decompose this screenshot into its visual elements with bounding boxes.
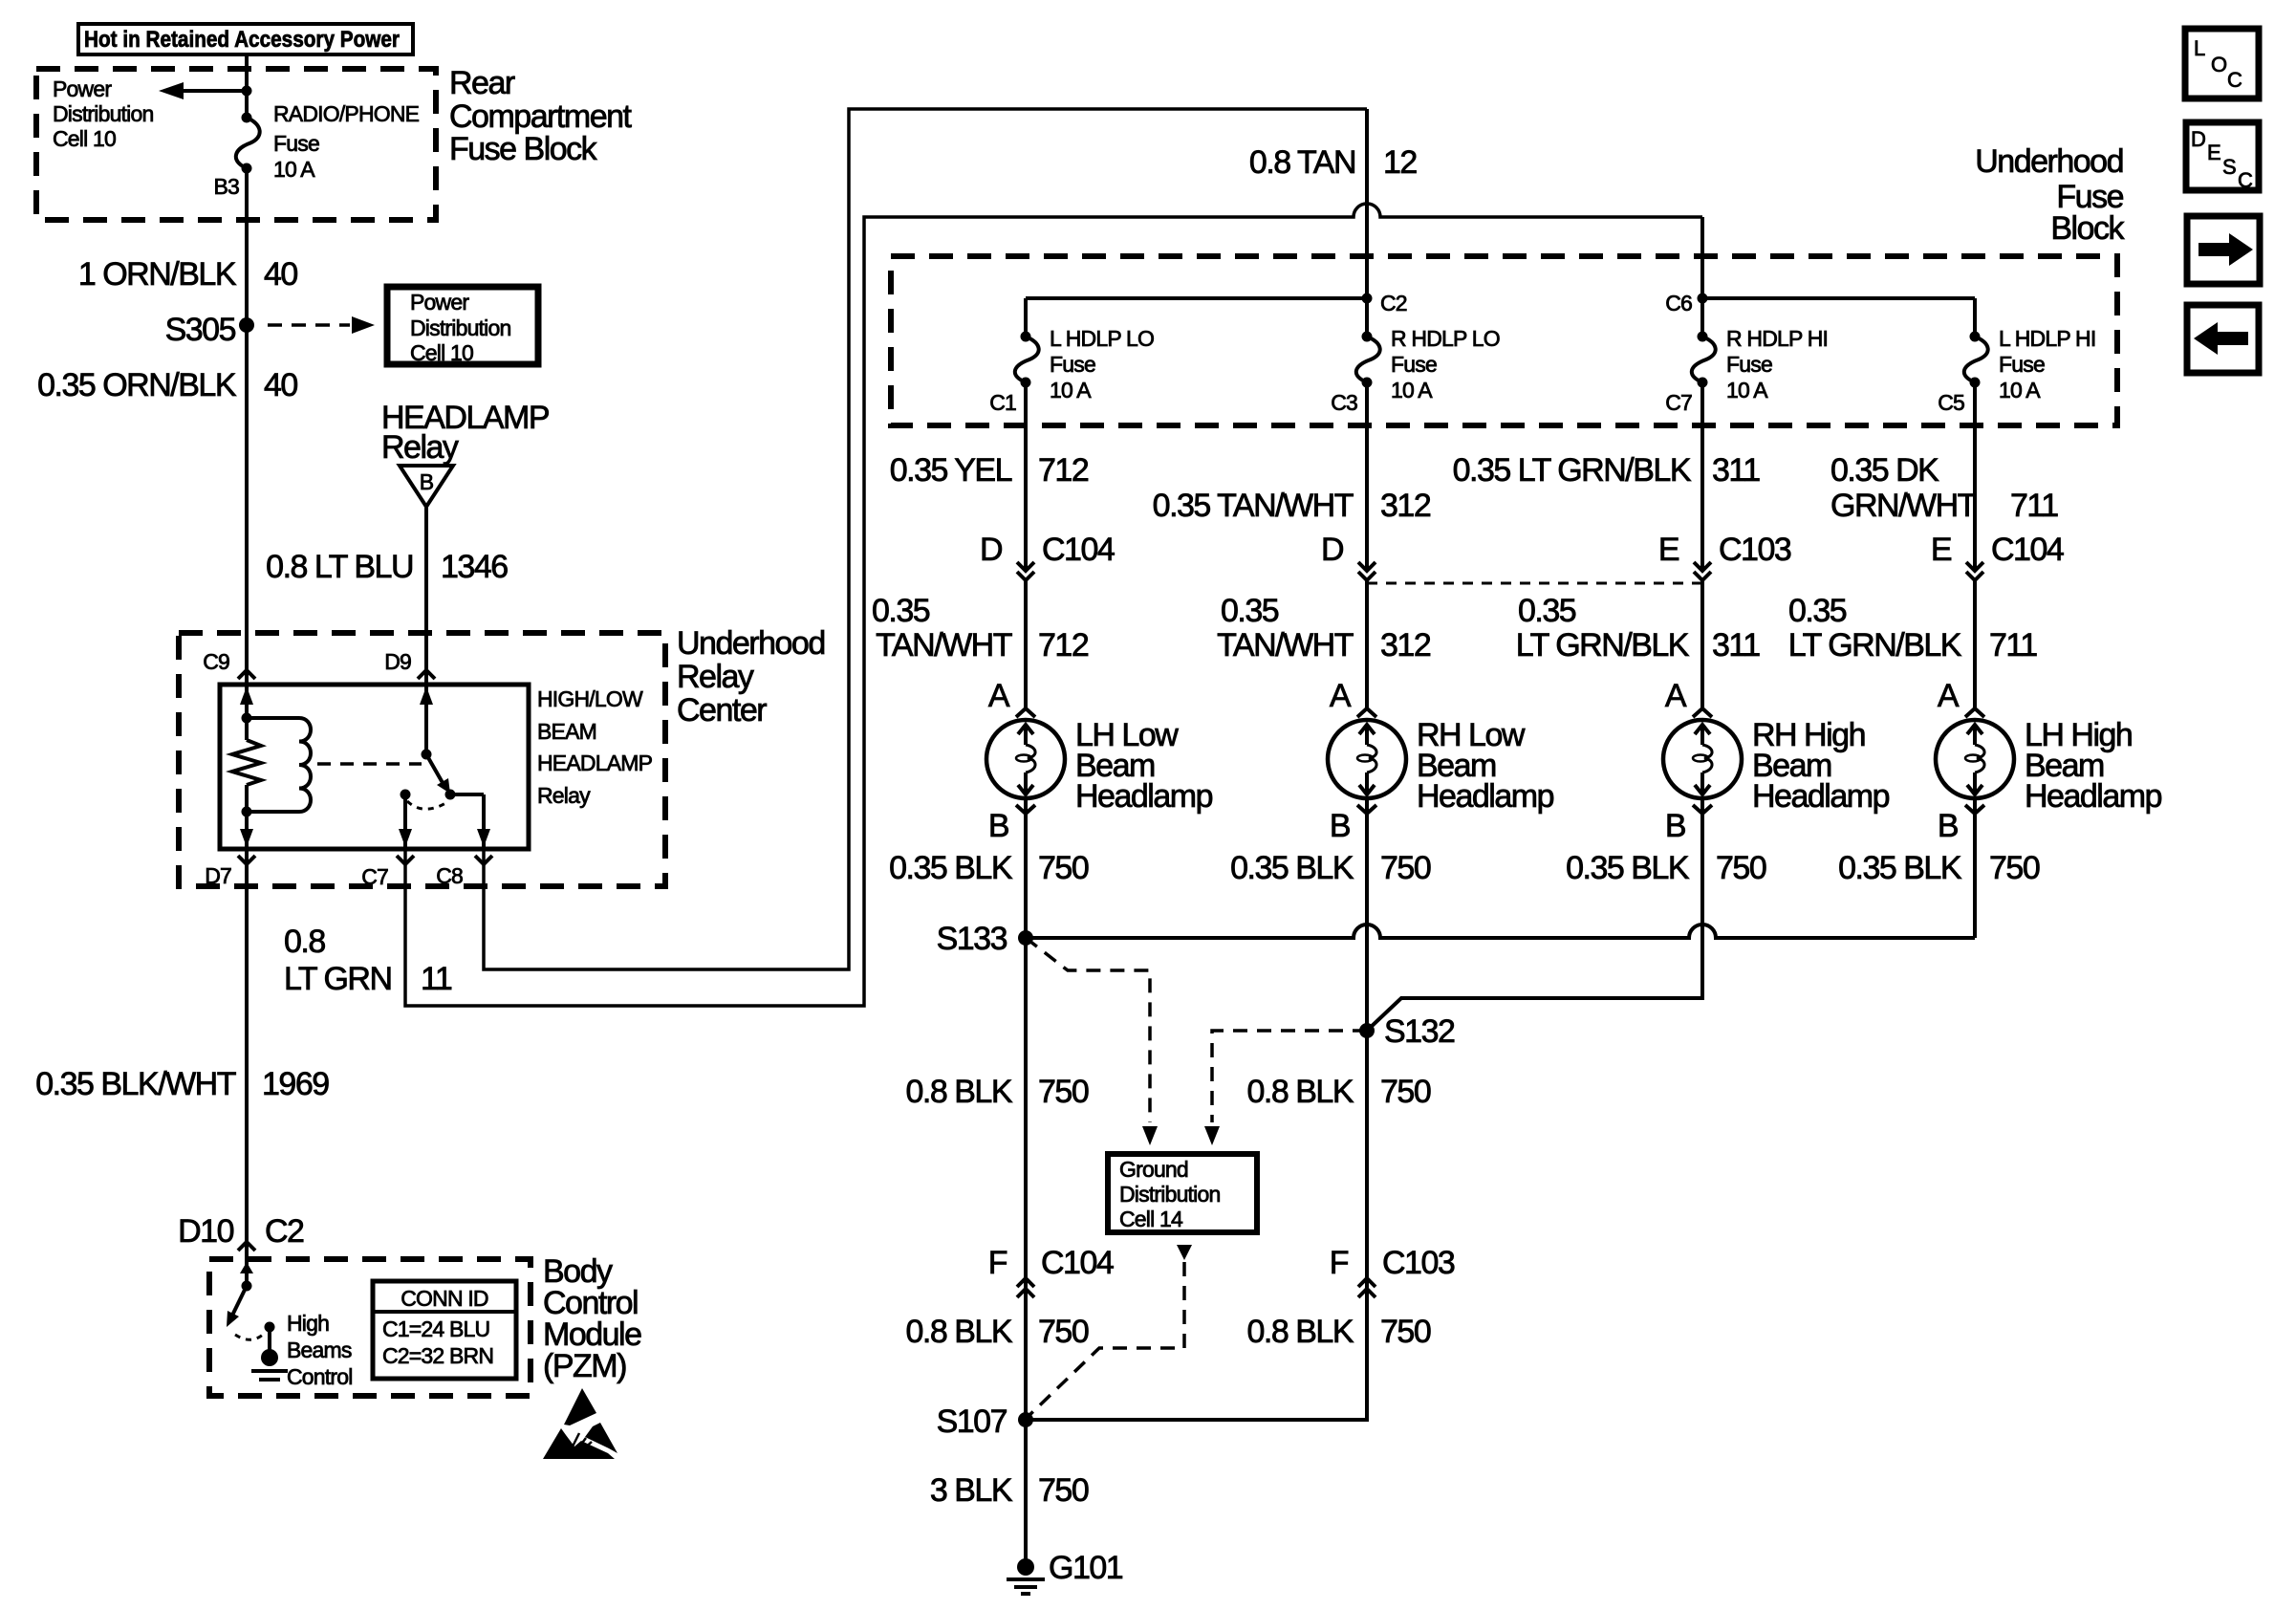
svg-text:0.35 BLK: 0.35 BLK <box>1566 850 1690 886</box>
underhood fuse block dashed box <box>891 256 2117 425</box>
wire triangle B to relay D9 <box>424 507 428 685</box>
svg-text:Cell 10: Cell 10 <box>53 126 116 151</box>
svg-text:B: B <box>1938 808 1958 844</box>
svg-text:D10: D10 <box>178 1213 233 1250</box>
svg-text:0.35: 0.35 <box>872 593 930 629</box>
wire contact to ground <box>268 1327 271 1352</box>
svg-text:Distribution: Distribution <box>53 101 153 126</box>
svg-text:C3: C3 <box>1331 390 1357 415</box>
splice S305 <box>239 317 254 333</box>
svg-text:0.8: 0.8 <box>284 924 325 960</box>
svg-text:0.8 BLK: 0.8 BLK <box>906 1074 1013 1110</box>
svg-text:C: C <box>2227 68 2242 92</box>
CONN ID table <box>373 1281 516 1379</box>
splice S132 <box>1359 1023 1375 1038</box>
fuse RADIO/PHONE 10A <box>236 118 260 168</box>
splice S107 <box>1018 1412 1033 1427</box>
svg-text:1 ORN/BLK: 1 ORN/BLK <box>78 256 237 293</box>
svg-text:C104: C104 <box>1042 532 1115 568</box>
dashed arrow S305 to power distribution <box>268 323 350 327</box>
svg-text:Fuse: Fuse <box>1726 352 1772 377</box>
svg-text:Relay: Relay <box>537 783 591 808</box>
svg-text:Relay: Relay <box>381 429 459 466</box>
svg-text:3 BLK: 3 BLK <box>930 1472 1013 1509</box>
svg-text:750: 750 <box>1380 850 1431 886</box>
svg-text:0.35: 0.35 <box>1518 593 1576 629</box>
svg-text:10 A: 10 A <box>1999 378 2041 402</box>
svg-text:311: 311 <box>1712 627 1760 664</box>
connector F C103 <box>1358 1278 1375 1287</box>
ground G101 <box>1017 1558 1034 1576</box>
svg-text:LT GRN/BLK: LT GRN/BLK <box>1788 627 1962 664</box>
svg-text:D: D <box>2191 127 2205 151</box>
svg-text:12: 12 <box>1383 144 1417 181</box>
svg-text:LT GRN/BLK: LT GRN/BLK <box>1516 627 1690 664</box>
body control module dashed box <box>209 1259 531 1396</box>
wire hot feed into fuse block <box>245 54 249 118</box>
svg-text:0.35 TAN/WHT: 0.35 TAN/WHT <box>1153 488 1354 524</box>
svg-text:C6: C6 <box>1665 291 1692 315</box>
node C2 bus <box>1026 296 1367 300</box>
svg-text:Fuse: Fuse <box>1391 352 1437 377</box>
off-page triangle B headlamp relay <box>400 466 453 507</box>
svg-text:40: 40 <box>264 256 297 293</box>
svg-text:Center: Center <box>677 692 767 729</box>
svg-text:Relay: Relay <box>677 659 754 695</box>
svg-text:40: 40 <box>264 367 297 403</box>
svg-text:Rear: Rear <box>449 65 515 101</box>
BCM switch lever <box>229 1286 247 1321</box>
svg-text:RADIO/PHONE: RADIO/PHONE <box>273 101 420 126</box>
relay coil branch wire <box>245 685 249 740</box>
hot in retained accessory power box <box>78 24 413 54</box>
svg-text:E: E <box>1931 532 1952 568</box>
svg-text:712: 712 <box>1038 452 1089 489</box>
splice S133 <box>1018 930 1033 946</box>
pin D9 connector <box>418 670 435 679</box>
svg-text:750: 750 <box>1038 1314 1089 1350</box>
svg-text:S107: S107 <box>937 1403 1007 1440</box>
svg-text:Underhood: Underhood <box>1975 143 2123 180</box>
svg-text:GRN/WHT: GRN/WHT <box>1830 488 1977 524</box>
svg-text:750: 750 <box>1038 850 1089 886</box>
svg-text:0.8 TAN: 0.8 TAN <box>1249 144 1355 181</box>
svg-text:10 A: 10 A <box>1050 378 1092 402</box>
fuse L HDLP LO 10A <box>1015 337 1039 382</box>
svg-text:Headlamp: Headlamp <box>1752 778 1890 815</box>
svg-text:CONN ID: CONN ID <box>401 1286 488 1311</box>
svg-text:F: F <box>1330 1245 1349 1281</box>
wire C8 low-beam feed loop <box>484 109 1367 969</box>
relay resistor <box>232 740 261 785</box>
svg-text:C2=32 BRN: C2=32 BRN <box>382 1343 493 1368</box>
svg-text:F: F <box>988 1245 1007 1281</box>
connector break at x=1430 <box>1358 562 1375 571</box>
svg-text:750: 750 <box>1989 850 2040 886</box>
svg-text:Power: Power <box>410 290 469 315</box>
pin D7 connector <box>238 856 255 864</box>
wire LH high beam ground to S133 bus <box>1973 798 1977 938</box>
relay switch lever <box>426 754 445 788</box>
svg-text:C5: C5 <box>1938 390 1964 415</box>
svg-text:Distribution: Distribution <box>410 315 510 340</box>
relay switch common <box>424 685 428 754</box>
svg-text:0.35: 0.35 <box>1221 593 1279 629</box>
wire to C2 <box>1365 109 1369 298</box>
headlamp bulb RH Low <box>1328 720 1406 798</box>
svg-text:750: 750 <box>1380 1314 1431 1350</box>
svg-text:10 A: 10 A <box>1391 378 1433 402</box>
svg-text:0.8 BLK: 0.8 BLK <box>1247 1074 1354 1110</box>
svg-text:C7: C7 <box>1665 390 1692 415</box>
svg-text:Compartment: Compartment <box>449 98 633 135</box>
svg-text:Headlamp: Headlamp <box>1417 778 1554 815</box>
svg-text:C9: C9 <box>203 649 229 674</box>
svg-text:S132: S132 <box>1384 1013 1455 1050</box>
connector break at x=2066 <box>1966 562 1983 571</box>
wire B3 to relay C9 <box>245 168 249 685</box>
svg-text:Ground: Ground <box>1119 1157 1188 1182</box>
icon box arrow right <box>2187 216 2260 284</box>
svg-text:S133: S133 <box>937 921 1007 957</box>
fuse R HDLP LO 10A <box>1356 337 1380 382</box>
svg-text:B: B <box>988 808 1008 844</box>
svg-text:E: E <box>1658 532 1679 568</box>
svg-text:L HDLP HI: L HDLP HI <box>1999 326 2095 351</box>
connector break at x=1073 <box>1017 562 1034 571</box>
svg-text:L: L <box>2194 36 2205 60</box>
svg-text:711: 711 <box>1989 627 2037 664</box>
svg-text:C103: C103 <box>1719 532 1791 568</box>
svg-text:0.35 LT GRN/BLK: 0.35 LT GRN/BLK <box>1453 452 1692 489</box>
svg-text:Fuse: Fuse <box>1050 352 1095 377</box>
svg-text:S305: S305 <box>165 312 236 348</box>
svg-text:High: High <box>287 1311 329 1336</box>
svg-text:0.8 LT BLU: 0.8 LT BLU <box>266 549 413 585</box>
svg-text:311: 311 <box>1712 452 1760 489</box>
svg-text:B: B <box>420 469 434 494</box>
svg-text:D: D <box>980 532 1002 568</box>
dashed arc between contacts <box>407 801 447 809</box>
svg-text:Headlamp: Headlamp <box>2025 778 2162 815</box>
ground high beams control <box>261 1349 278 1366</box>
power distribution cell 10 box <box>387 287 538 364</box>
svg-text:B: B <box>1330 808 1350 844</box>
svg-text:R HDLP LO: R HDLP LO <box>1391 326 1500 351</box>
rear compartment fuse block dashed box <box>36 69 436 220</box>
wire to C6 <box>1700 217 1704 298</box>
svg-text:0.8 BLK: 0.8 BLK <box>906 1314 1013 1350</box>
svg-text:(PZM): (PZM) <box>543 1348 626 1384</box>
svg-text:711: 711 <box>2010 488 2058 524</box>
relay HIGH/LOW BEAM HEADLAMP box <box>220 685 529 849</box>
svg-text:G101: G101 <box>1049 1550 1123 1586</box>
svg-text:750: 750 <box>1038 1074 1089 1110</box>
svg-text:312: 312 <box>1380 488 1431 524</box>
junction dot at feed arrow <box>242 86 252 97</box>
svg-text:HIGH/LOW: HIGH/LOW <box>537 686 643 711</box>
svg-text:A: A <box>1330 678 1352 714</box>
pin C7 connector <box>397 856 414 864</box>
svg-text:1969: 1969 <box>262 1066 329 1102</box>
svg-text:750: 750 <box>1380 1074 1431 1110</box>
svg-text:10 A: 10 A <box>1726 378 1768 402</box>
svg-text:A: A <box>1938 678 1960 714</box>
connector D10 C2 <box>238 1242 255 1251</box>
svg-text:0.35: 0.35 <box>1788 593 1847 629</box>
svg-text:1346: 1346 <box>441 549 508 585</box>
svg-text:D7: D7 <box>205 863 231 888</box>
pin C8 connector <box>475 856 492 864</box>
svg-text:D: D <box>1321 532 1343 568</box>
svg-text:Underhood: Underhood <box>677 625 825 662</box>
pin C9 connector <box>238 670 255 679</box>
svg-text:D9: D9 <box>384 649 411 674</box>
svg-text:B3: B3 <box>213 174 239 199</box>
svg-text:HEADLAMP: HEADLAMP <box>537 751 653 775</box>
svg-text:C2: C2 <box>265 1213 304 1250</box>
svg-text:LT GRN: LT GRN <box>284 961 392 997</box>
svg-text:712: 712 <box>1038 627 1089 664</box>
svg-text:312: 312 <box>1380 627 1431 664</box>
svg-text:A: A <box>1665 678 1687 714</box>
wire RH high beam ground to S132 <box>1367 798 1702 1031</box>
dashed arc BCM switch <box>235 1334 264 1339</box>
svg-text:E: E <box>2207 141 2220 164</box>
headlamp bulb LH High <box>1936 720 2014 798</box>
underhood relay center dashed box <box>179 633 665 886</box>
svg-text:S: S <box>2222 155 2236 179</box>
svg-text:0.35 BLK: 0.35 BLK <box>889 850 1013 886</box>
fuse L HDLP HI 10A <box>1964 337 1988 382</box>
dashed reference S133 to ground distribution <box>1026 938 1150 1122</box>
wire C7 high-beam feed loop with crossover hump <box>405 204 1702 1006</box>
svg-text:C7: C7 <box>361 864 388 889</box>
svg-text:10 A: 10 A <box>273 157 315 182</box>
svg-text:0.35 ORN/BLK: 0.35 ORN/BLK <box>37 367 237 403</box>
dashed connector association line <box>1367 582 1702 585</box>
svg-text:Fuse: Fuse <box>273 131 319 156</box>
svg-text:C: C <box>2238 168 2253 192</box>
svg-text:TAN/WHT: TAN/WHT <box>1217 627 1354 664</box>
svg-text:0.35 BLK/WHT: 0.35 BLK/WHT <box>35 1066 235 1102</box>
wire LH low beam ground <box>1024 798 1028 1567</box>
relay contact low <box>401 790 411 800</box>
dashed reference S132 to ground distribution <box>1212 1031 1367 1122</box>
svg-text:11: 11 <box>421 961 452 997</box>
relay coil <box>247 716 299 720</box>
node C6 bus <box>1702 296 1975 300</box>
svg-text:C103: C103 <box>1382 1245 1455 1281</box>
svg-text:A: A <box>988 678 1010 714</box>
svg-text:Cell 14: Cell 14 <box>1119 1207 1183 1231</box>
BCM switch input arrow <box>240 1262 253 1273</box>
svg-text:Beams: Beams <box>287 1338 352 1362</box>
svg-text:Hot in Retained Accessory Powe: Hot in Retained Accessory Power <box>84 27 400 53</box>
svg-text:C1: C1 <box>989 390 1016 415</box>
icon box arrow left <box>2187 305 2259 373</box>
svg-text:C1=24 BLU: C1=24 BLU <box>382 1316 489 1341</box>
svg-text:BEAM: BEAM <box>537 719 596 744</box>
svg-text:750: 750 <box>1038 1472 1089 1509</box>
svg-text:0.35 YEL: 0.35 YEL <box>890 452 1012 489</box>
svg-text:0.35 BLK: 0.35 BLK <box>1230 850 1354 886</box>
fuse R HDLP HI 10A <box>1692 337 1716 382</box>
svg-text:Distribution: Distribution <box>1119 1182 1220 1207</box>
svg-text:Fuse Block: Fuse Block <box>449 131 598 167</box>
ESD sensitive symbol <box>564 1388 596 1425</box>
svg-text:C2: C2 <box>1380 291 1407 315</box>
headlamp bulb LH Low <box>986 720 1065 798</box>
svg-text:Fuse: Fuse <box>1999 352 2045 377</box>
ground distribution cell 14 box <box>1108 1154 1257 1232</box>
svg-text:C8: C8 <box>436 863 463 888</box>
wire fuse drops <box>1024 298 1028 337</box>
arrow to power distribution <box>182 89 247 93</box>
svg-text:R HDLP HI: R HDLP HI <box>1726 326 1828 351</box>
wire D7 to BCM <box>245 849 249 1286</box>
svg-text:C104: C104 <box>1991 532 2064 568</box>
wire RH low beam ground <box>1026 798 1367 1420</box>
BCM contact high beams <box>265 1322 275 1333</box>
dashed actuation line coil to switch <box>317 762 422 766</box>
svg-text:O: O <box>2211 53 2227 76</box>
svg-text:C104: C104 <box>1041 1245 1114 1281</box>
svg-text:Cell 10: Cell 10 <box>410 340 473 365</box>
svg-text:Block: Block <box>2050 210 2125 247</box>
svg-text:B: B <box>1665 808 1685 844</box>
svg-text:750: 750 <box>1716 850 1766 886</box>
dashed reference ground distribution to S107 <box>1177 1245 1192 1260</box>
svg-text:0.8 BLK: 0.8 BLK <box>1247 1314 1354 1350</box>
svg-text:Headlamp: Headlamp <box>1075 778 1213 815</box>
svg-text:TAN/WHT: TAN/WHT <box>876 627 1012 664</box>
svg-text:L HDLP LO: L HDLP LO <box>1050 326 1154 351</box>
headlamp bulb RH High <box>1663 720 1742 798</box>
svg-text:Control: Control <box>287 1364 353 1389</box>
wires into headlamps <box>1024 580 1028 708</box>
svg-text:0.35 BLK: 0.35 BLK <box>1838 850 1962 886</box>
svg-text:Power: Power <box>53 76 112 101</box>
wires fuse outputs <box>1024 382 1028 571</box>
ground bus S133 with crossover humps <box>1026 925 1975 938</box>
connector break at x=1781 <box>1694 562 1711 571</box>
relay contact high <box>445 790 456 800</box>
connector F C104 <box>1017 1278 1034 1287</box>
icon box DESC <box>2186 122 2259 190</box>
icon box LOC <box>2185 29 2259 98</box>
svg-text:0.35 DK: 0.35 DK <box>1830 452 1939 489</box>
